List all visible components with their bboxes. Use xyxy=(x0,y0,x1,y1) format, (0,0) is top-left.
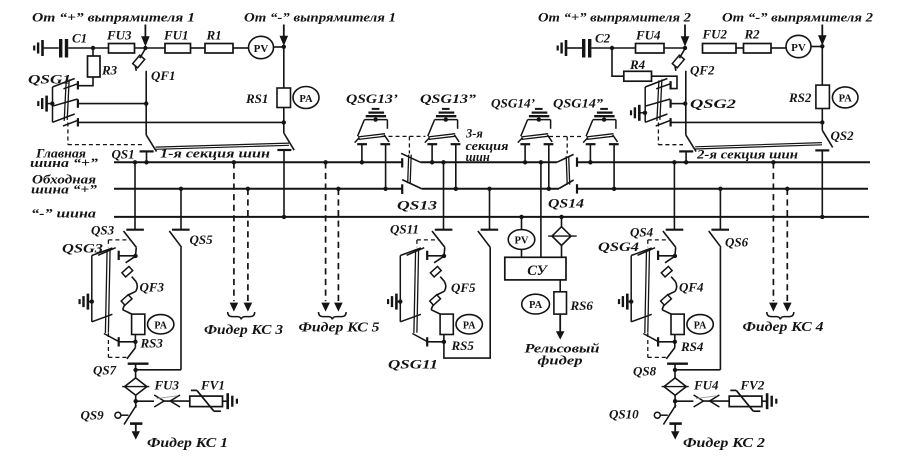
interlock dashes QS3-QSG3 xyxy=(108,239,131,241)
svg-text:R3: R3 xyxy=(101,63,118,78)
interlock dashes QS13 xyxy=(382,135,426,137)
svg-text:2-я секция шин: 2-я секция шин xyxy=(696,148,798,162)
wire QSG3 bottom contact xyxy=(119,341,136,343)
wire QS8 junction to diamond xyxy=(674,364,676,378)
fuse FU3 (plug contacts) xyxy=(154,395,164,401)
wire PV to smoothing device xyxy=(521,249,523,257)
sectionalizer QS14 xyxy=(576,157,578,166)
resistor R4 xyxy=(624,71,652,81)
wire minus lead to RS2 xyxy=(821,46,823,85)
disconnector at section 1 minus side xyxy=(284,133,294,150)
svg-text:QF2: QF2 xyxy=(690,63,715,78)
svg-text:От “+” выпрямителя 2: От “+” выпрямителя 2 xyxy=(538,10,692,25)
node at C1/R3 xyxy=(91,46,95,50)
wire R2 to PV xyxy=(771,47,786,49)
ground at C2 xyxy=(557,46,559,51)
svg-text:R4: R4 xyxy=(629,57,646,72)
breaker QF1 xyxy=(140,49,146,59)
disconnector QS3 xyxy=(133,160,137,164)
arrester FV1 xyxy=(190,396,223,407)
wire QF1 vertical xyxy=(145,71,147,135)
voltmeter PV rectifier 2 xyxy=(786,35,811,57)
svg-text:Фидер КС 5: Фидер КС 5 xyxy=(299,320,380,335)
wire QSG3 top contact xyxy=(119,255,136,257)
svg-text:QF4: QF4 xyxy=(679,280,704,295)
svg-text:RS4: RS4 xyxy=(680,339,704,354)
grounding switch QSG11 xyxy=(399,256,401,322)
feeder arrow xyxy=(674,424,676,432)
bus section 2 bar xyxy=(695,143,822,149)
shunt RS4 with ammeter PA xyxy=(671,314,684,334)
svg-text:FU3: FU3 xyxy=(106,28,132,43)
resistor R4 branch wire xyxy=(612,48,624,76)
svg-text:FV2: FV2 xyxy=(740,378,765,393)
fuse FU4 (plug contacts) xyxy=(694,395,704,401)
grounding switch QSG2 xyxy=(645,79,667,123)
voltmeter PV rectifier 1 xyxy=(249,36,274,58)
svg-text:1-я секция шин: 1-я секция шин xyxy=(160,147,270,161)
rectifier 1 minus lead-in arrow xyxy=(283,25,285,37)
wire R3 to QSG1 xyxy=(79,77,94,86)
main bus '+' section 1 segment xyxy=(114,161,402,163)
svg-text:QSG14’: QSG14’ xyxy=(491,96,535,111)
svg-text:PA: PA xyxy=(299,94,313,105)
disconnector QS7 xyxy=(127,348,135,359)
svg-text:PV: PV xyxy=(791,42,806,54)
svg-text:RS2: RS2 xyxy=(788,90,812,105)
shunt RS2 with ammeter PA xyxy=(816,85,830,108)
wire QSG4 bottom contact xyxy=(658,341,675,343)
svg-text:шина “+”: шина “+” xyxy=(31,182,98,196)
dashed feeder line (from main bus) xyxy=(323,160,327,164)
wire RS3 down xyxy=(134,335,136,348)
interlock dashes QSG1-QS1 xyxy=(67,123,69,145)
svg-text:QS7: QS7 xyxy=(93,363,117,378)
svg-text:Фидер КС 1: Фидер КС 1 xyxy=(147,435,228,450)
grounding switch QSG1 xyxy=(53,79,75,123)
svg-text:RS6: RS6 xyxy=(570,298,594,313)
dashed feeder line (from main bus) xyxy=(771,160,775,164)
shunt RS3 with ammeter PA xyxy=(132,314,145,334)
svg-text:PV: PV xyxy=(515,236,529,247)
svg-text:QSG1: QSG1 xyxy=(28,72,71,87)
svg-text:QSG13’: QSG13’ xyxy=(346,91,398,106)
svg-text:QSG11: QSG11 xyxy=(388,357,438,372)
wire minus bus to diamond xyxy=(559,215,563,219)
arrester FV2 xyxy=(729,396,762,407)
svg-text:QSG2: QSG2 xyxy=(690,96,737,111)
wire ground to C1 xyxy=(43,47,59,49)
svg-text:RS1: RS1 xyxy=(245,91,268,106)
ground at C1 xyxy=(33,46,35,51)
svg-text:шин: шин xyxy=(466,150,490,164)
svg-text:От “-” выпрямителя 2: От “-” выпрямителя 2 xyxy=(722,10,874,25)
rectifier 2 minus lead-in arrow xyxy=(821,25,823,37)
interlock dashes QSG4-QS8 xyxy=(647,333,649,357)
main bus '+' section 3 segment xyxy=(421,161,558,163)
disconnector QS1 xyxy=(146,135,156,152)
svg-text:От “+” выпрямителя 1: От “+” выпрямителя 1 xyxy=(32,10,195,25)
svg-text:PA: PA xyxy=(529,300,543,311)
resistor R3 xyxy=(88,56,101,77)
minus bus xyxy=(114,216,869,218)
svg-text:Фидер КС 3: Фидер КС 3 xyxy=(204,322,283,337)
svg-text:C1: C1 xyxy=(72,31,87,46)
wire arrester to ground xyxy=(223,400,228,402)
wire FU3 to junction xyxy=(135,47,166,49)
svg-text:QSG3: QSG3 xyxy=(62,241,104,256)
wire diamond to node xyxy=(135,395,137,408)
wire FU1 to R1 xyxy=(191,47,206,49)
svg-text:R1: R1 xyxy=(206,28,222,43)
fuse FU4 xyxy=(636,44,665,54)
wire QSG11 bottom contact xyxy=(427,341,444,343)
bus section 1 bar xyxy=(156,143,290,149)
svg-text:QS14: QS14 xyxy=(548,196,585,211)
wire R4 to QSG2 xyxy=(652,76,678,88)
dashed feeder line (from main bus) xyxy=(232,160,236,164)
interlock dashes QSG2-QS2 xyxy=(657,123,659,145)
wire node to fuse xyxy=(675,400,693,402)
breaker QF2 xyxy=(679,49,685,59)
dashed feeder line (from bypass bus) xyxy=(336,187,340,191)
interlock dashes QS4-QSG4 xyxy=(648,239,671,241)
smoothing device CY box xyxy=(505,257,566,280)
svg-text:“-” шина: “-” шина xyxy=(31,206,97,221)
rectifier 1 plus lead-in arrow xyxy=(144,25,146,38)
svg-text:PA: PA xyxy=(839,94,853,105)
disconnector at section 2 plus side xyxy=(686,135,696,152)
interlock dashes QS14 xyxy=(549,136,581,138)
feeder arrow xyxy=(135,424,137,432)
svg-text:FU4: FU4 xyxy=(693,378,719,393)
feeder brace xyxy=(767,312,794,319)
dashed feeder line (from bypass bus) xyxy=(246,187,250,191)
breaker QF3 xyxy=(126,256,136,263)
surge arrester diamond xyxy=(664,378,686,395)
svg-text:QSG4: QSG4 xyxy=(598,239,640,254)
wire RS2 down xyxy=(821,109,823,131)
resistor R1 xyxy=(205,44,233,54)
disconnector QS4 xyxy=(672,160,676,164)
shunt RS5 with ammeter PA xyxy=(440,314,453,334)
wire CY to RS6 xyxy=(559,280,561,292)
svg-text:QS5: QS5 xyxy=(190,232,214,247)
svg-text:RS3: RS3 xyxy=(140,336,164,351)
wire C1 to node xyxy=(68,47,108,49)
wire R1 to PV xyxy=(233,47,249,49)
resistor R3 branch wire xyxy=(92,48,94,56)
breaker QF5 xyxy=(434,256,444,263)
wire fuse to arrester xyxy=(164,400,190,402)
wire minus bus to PV xyxy=(519,215,523,219)
wire arrester to ground xyxy=(762,400,767,402)
svg-text:QS11: QS11 xyxy=(390,222,419,237)
svg-text:QS3: QS3 xyxy=(91,223,115,238)
fuse FU3 xyxy=(109,44,135,54)
wire C2 to node xyxy=(591,47,635,49)
capacitor C1 xyxy=(59,39,62,58)
ground at arrester xyxy=(766,393,769,409)
wire FU2 to R2 xyxy=(736,47,744,49)
grounding switch QSG13' xyxy=(372,108,380,110)
bypass bus '+' section 3 segment xyxy=(422,188,559,190)
svg-text:QF3: QF3 xyxy=(140,280,165,295)
svg-text:шина “+”: шина “+” xyxy=(30,156,99,170)
disconnector QS9 xyxy=(115,412,121,418)
svg-text:QF1: QF1 xyxy=(151,68,176,83)
interlock dashes QSG3-QS7 xyxy=(107,333,109,357)
wire QS7/QS8 junction to diamond xyxy=(135,364,137,378)
bypass bus '+' section 1 segment xyxy=(114,188,402,190)
wire ground to C2 xyxy=(566,47,582,49)
grounding switch QSG13'' xyxy=(442,108,450,110)
shunt RS1 with ammeter PA xyxy=(277,88,291,108)
wire QSG2 bottom contact to RS2 lead xyxy=(671,121,823,123)
svg-text:QS10: QS10 xyxy=(609,407,639,422)
svg-text:FV1: FV1 xyxy=(200,378,225,393)
wire QS6 return xyxy=(675,369,721,371)
feeder contact bar xyxy=(669,422,681,425)
wire fuse to arrester xyxy=(703,400,729,402)
arrester diamond rail feeder xyxy=(552,227,571,246)
svg-text:QS2: QS2 xyxy=(831,128,855,143)
wire main bus to smoothing device xyxy=(539,160,543,164)
ground at arrester xyxy=(226,393,229,409)
disconnector QS2 xyxy=(822,130,832,147)
svg-text:СУ: СУ xyxy=(527,263,548,279)
interlock dashes QS11-QSG11 xyxy=(417,239,440,241)
svg-text:FU1: FU1 xyxy=(163,28,189,43)
dashed feeder line (from bypass bus) xyxy=(785,187,789,191)
wire QS5 return xyxy=(135,369,181,371)
wire RS5 to return loop xyxy=(444,247,490,358)
grounding switch QSG14'' xyxy=(600,108,608,110)
surge arrester diamond xyxy=(125,378,147,395)
svg-text:FU3: FU3 xyxy=(154,378,180,393)
disconnector QS6 xyxy=(718,187,722,191)
svg-text:R2: R2 xyxy=(744,27,761,42)
svg-text:PA: PA xyxy=(154,320,167,331)
svg-text:QF5: QF5 xyxy=(451,280,476,295)
svg-text:Фидер КС 4: Фидер КС 4 xyxy=(743,319,824,334)
feeder contact bar xyxy=(130,422,142,425)
wire PV to minus lead xyxy=(274,46,284,48)
svg-text:QSG14”: QSG14” xyxy=(553,96,604,111)
disconnector QS10 xyxy=(654,412,660,418)
svg-text:RS5: RS5 xyxy=(451,338,475,353)
wire RS1 down xyxy=(283,108,285,134)
svg-text:От “-” выпрямителя 1: От “-” выпрямителя 1 xyxy=(244,10,396,25)
svg-text:C2: C2 xyxy=(595,31,611,46)
wire RS4 down xyxy=(674,335,676,348)
wire diamond to smoothing device xyxy=(561,246,563,258)
svg-text:FU4: FU4 xyxy=(635,28,661,43)
wire QSG1 bottom contact to RS1 lead xyxy=(78,121,284,123)
wire QF2 vertical xyxy=(685,71,687,135)
svg-text:QS1: QS1 xyxy=(112,147,135,162)
shunt RS6 with ammeter PA xyxy=(554,292,567,314)
svg-text:FU2: FU2 xyxy=(702,27,728,42)
node at C2/R4 xyxy=(610,46,614,50)
fuse FU2 xyxy=(703,44,737,54)
disconnector QS8 xyxy=(666,348,675,359)
svg-text:PA: PA xyxy=(694,320,707,331)
wire PV to minus lead xyxy=(811,46,822,48)
svg-text:PV: PV xyxy=(254,43,269,55)
main bus '+' section 2 segment xyxy=(577,161,870,163)
svg-text:QS8: QS8 xyxy=(633,364,657,379)
sectionalizer QS13 xyxy=(401,158,403,167)
wire minus lead to RS1 xyxy=(283,47,285,88)
rectifier 2 plus lead-in arrow xyxy=(684,25,686,38)
wire QSG2 middle contact to QF2 xyxy=(671,103,686,105)
wire QSG11 top contact xyxy=(427,255,444,257)
svg-text:QS13: QS13 xyxy=(397,198,438,213)
wire QSG1 middle contact to QF1 xyxy=(78,103,146,105)
svg-text:QS9: QS9 xyxy=(81,408,105,423)
svg-text:QSG13”: QSG13” xyxy=(420,91,477,106)
voltmeter PV rail feeder xyxy=(508,230,535,250)
grounding switch QSG3 xyxy=(91,256,93,322)
svg-text:Фидер КС 2: Фидер КС 2 xyxy=(683,435,765,450)
svg-text:PA: PA xyxy=(463,320,476,331)
wire node to fuse xyxy=(136,400,154,402)
bypass bus '+' section 2 segment xyxy=(577,188,868,190)
wire FU4 to junction xyxy=(664,47,685,49)
svg-text:QS6: QS6 xyxy=(725,235,749,250)
feeder brace xyxy=(228,312,255,319)
disconnector at bypass side of reserve bay xyxy=(478,231,490,247)
grounding switch QSG14' xyxy=(535,108,543,110)
wire diamond to node xyxy=(674,395,676,408)
fuse FU1 xyxy=(165,44,191,54)
resistor R2 xyxy=(744,44,772,54)
grounding switch QSG4 xyxy=(630,256,632,322)
disconnector QS11 xyxy=(441,160,445,164)
capacitor C2 xyxy=(582,39,585,58)
disconnector QS5 xyxy=(179,187,183,191)
breaker QF4 xyxy=(665,256,675,263)
feeder brace xyxy=(319,312,347,319)
svg-text:QS4: QS4 xyxy=(630,225,654,240)
wire QSG4 top contact xyxy=(658,255,675,257)
rail feeder arrow xyxy=(559,314,561,332)
svg-text:фидер: фидер xyxy=(538,353,584,368)
